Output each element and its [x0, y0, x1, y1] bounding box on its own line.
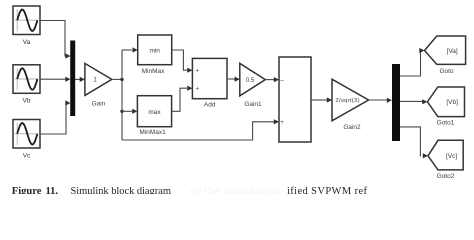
- svg-text:Gain: Gain: [92, 101, 106, 108]
- svg-text:max: max: [148, 109, 161, 116]
- svg-text:Goto2: Goto2: [437, 173, 455, 180]
- svg-text:Gain1: Gain1: [244, 101, 262, 108]
- svg-text:11.: 11.: [46, 186, 59, 194]
- svg-text:of the modulation: of the modulation: [190, 186, 281, 194]
- svg-text:2/sqrt(3): 2/sqrt(3): [336, 98, 360, 104]
- svg-text:Vb: Vb: [23, 98, 31, 105]
- svg-text:Figure: Figure: [12, 186, 42, 194]
- svg-text:Vc: Vc: [23, 153, 31, 160]
- svg-text:Gain2: Gain2: [343, 124, 361, 131]
- svg-text:Simulink block diagram: Simulink block diagram: [71, 186, 172, 194]
- svg-text:0.5: 0.5: [246, 78, 255, 84]
- svg-text:+: +: [196, 86, 200, 92]
- svg-text:min: min: [149, 48, 160, 55]
- svg-text:Goto: Goto: [439, 68, 453, 75]
- svg-text:Va: Va: [23, 39, 31, 46]
- svg-text:Add: Add: [204, 102, 216, 109]
- svg-text:MinMax: MinMax: [142, 68, 166, 75]
- svg-text:[Va]: [Va]: [447, 48, 458, 55]
- svg-text:+: +: [196, 68, 200, 74]
- svg-text:Goto1: Goto1: [437, 119, 455, 126]
- svg-text:–: –: [280, 77, 284, 84]
- svg-text:ified SVPWM ref: ified SVPWM ref: [287, 186, 368, 194]
- svg-text:MinMax1: MinMax1: [139, 129, 166, 136]
- svg-text:+: +: [280, 120, 284, 126]
- svg-text:[Vc]: [Vc]: [446, 153, 457, 160]
- svg-text:1: 1: [93, 77, 97, 84]
- svg-text:[Vb]: [Vb]: [446, 99, 458, 106]
